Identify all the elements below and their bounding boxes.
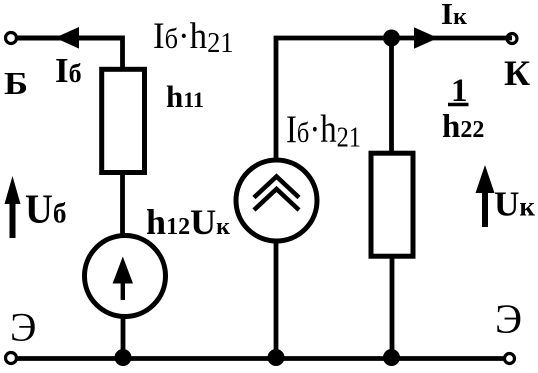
resistor 1/h22	[371, 153, 413, 256]
label h11	[166, 79, 204, 114]
label Iб·h21 middle	[286, 108, 361, 154]
label 1/h22	[442, 73, 484, 145]
wire top collector rail	[276, 38, 512, 160]
svg-text:К: К	[504, 53, 530, 93]
wire to resistor h11	[120, 36, 125, 69]
wire resistor to source	[120, 173, 125, 236]
svg-text:Э: Э	[10, 305, 36, 350]
label Uк	[494, 185, 535, 224]
wire base lead	[17, 36, 123, 41]
wire resistor to bottom (right)	[390, 255, 395, 359]
svg-text:Э: Э	[495, 296, 522, 342]
label Э right	[495, 296, 522, 342]
voltage arrow Uб	[5, 176, 21, 238]
label Б	[4, 65, 28, 101]
dependent source h12Uk	[85, 236, 166, 317]
label Uб	[25, 186, 67, 232]
terminal Б	[6, 33, 17, 44]
label Iб·h21 top	[153, 16, 234, 59]
label Э left	[10, 305, 36, 350]
junction node (collector top)	[383, 30, 400, 47]
label К	[504, 53, 530, 93]
label h12Uк	[146, 202, 230, 242]
current arrow Iк	[414, 27, 438, 49]
wire junction to resistor h22	[389, 38, 394, 153]
label Iк	[441, 0, 467, 31]
resistor h11	[102, 69, 145, 172]
label Iб	[55, 51, 82, 90]
current arrow Ib	[55, 27, 79, 49]
junction node (emitter middle)	[268, 349, 285, 366]
svg-text:Iк: Iк	[441, 0, 467, 31]
svg-text:Б: Б	[4, 65, 28, 101]
wire source to bottom	[121, 316, 126, 359]
voltage arrow Uк	[476, 165, 495, 227]
wire bottom emitter rail	[15, 356, 504, 361]
terminal Э left	[6, 353, 17, 364]
terminal Э right	[505, 354, 515, 364]
terminal К	[507, 34, 517, 44]
wire source to bottom (middle)	[274, 239, 279, 359]
junction node (emitter right)	[383, 349, 400, 366]
junction node (emitter left branch)	[115, 349, 132, 366]
current source Iб·h21	[236, 160, 317, 241]
